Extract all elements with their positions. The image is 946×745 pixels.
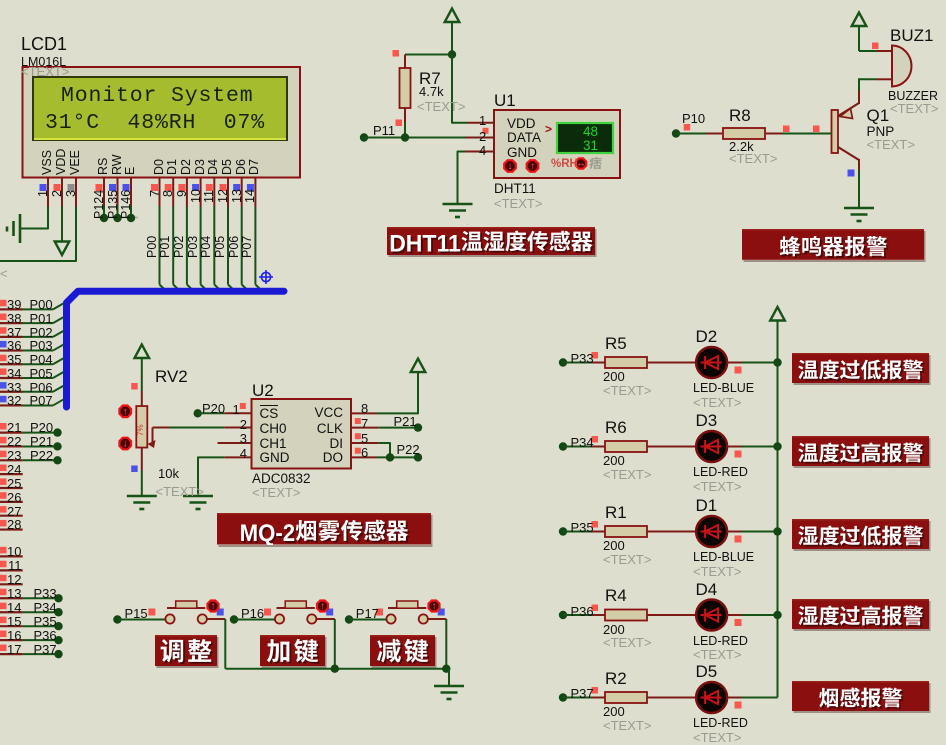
svg-text:↓: ↓	[123, 439, 128, 450]
wire D3 to rail	[727, 447, 777, 458]
banner 烟感报警	[792, 681, 929, 711]
banner P17 key	[370, 635, 435, 666]
ground DHT11	[443, 204, 473, 217]
banner 湿度过低报警	[792, 519, 929, 549]
LCD pin name labels	[41, 149, 54, 174]
svg-text:31: 31	[583, 138, 598, 153]
LCD1 labels	[21, 34, 67, 55]
ground RV2	[127, 496, 157, 509]
svg-text:MQ-2: MQ-2	[240, 520, 296, 544]
banner buzzer alarm	[742, 229, 925, 260]
wire U1 VDD pin1 to power	[452, 55, 468, 123]
U1 %RH label and button	[576, 158, 586, 169]
node P11 wire to U1 DATA pin2	[360, 128, 494, 142]
wire buzzer top pin	[859, 43, 892, 52]
banner 湿度过高报警	[792, 599, 929, 629]
LCD pin stubs	[48, 178, 255, 207]
power arrow DHT11 supply	[445, 9, 460, 55]
U1 adjust buttons	[504, 160, 538, 172]
RV2 up button	[119, 406, 131, 418]
U1 internal display	[545, 122, 613, 153]
LED D5 LED-RED	[696, 682, 727, 713]
wires LCD D0-D7 to bus	[160, 207, 263, 292]
banner MQ-2 smoke sensor	[217, 513, 431, 545]
ground LCD VSS	[7, 214, 20, 243]
banner 温度过低报警	[792, 353, 929, 383]
node P34 resistor R6 200	[559, 436, 696, 452]
U2 CLK pin7 to node P21	[351, 418, 422, 432]
node P10 and resistor R8 2.2k to Q1 base	[672, 124, 832, 139]
LED D4 LED-RED	[696, 600, 727, 631]
bus net labels P00-P07	[146, 235, 159, 257]
ground buttons	[434, 686, 464, 699]
junction R7/DATA	[401, 133, 409, 141]
svg-text:>: >	[545, 122, 552, 136]
svg-text:↑: ↑	[530, 161, 535, 172]
RV2 wiper to U2 CH0	[148, 428, 252, 449]
svg-text:↑: ↑	[320, 601, 325, 612]
svg-text:48: 48	[583, 124, 598, 139]
MCU port2 pins 21-28	[0, 423, 62, 437]
LED D3 LED-RED	[696, 431, 727, 462]
wire R7 top to power	[405, 54, 452, 56]
potentiometer RV2 10k	[131, 383, 147, 496]
U2 VCC pin8 to power arrow	[351, 359, 425, 414]
power arrow LED rail	[770, 307, 785, 363]
node P33 resistor R5 200	[559, 352, 696, 368]
U1 gray glyph	[589, 157, 601, 169]
banner P15 key	[155, 635, 217, 666]
power arrow RV2 supply	[135, 345, 150, 392]
ground U2	[183, 496, 213, 509]
LCD pin numbers	[37, 190, 50, 197]
junction rail	[773, 442, 781, 450]
U2 DI pin5 to DO	[351, 433, 390, 457]
common button wire to ground	[225, 665, 450, 686]
bus P0 (blue)	[67, 291, 285, 407]
svg-text:↓: ↓	[508, 161, 513, 172]
origin crosshair marker	[259, 270, 273, 284]
LCD screen	[33, 77, 287, 140]
wire U1 GND pin4 to ground	[458, 152, 495, 204]
power arrow down VDD	[55, 242, 70, 256]
ground buzzer	[844, 208, 874, 221]
node P36 resistor R4 200	[559, 605, 696, 621]
junction power/R7	[448, 50, 456, 58]
wire LCD VEE pin3	[0, 207, 76, 262]
LCD LM016L body LCD1	[23, 67, 301, 178]
wire D4 to rail	[727, 615, 777, 626]
power arrow buzzer supply	[852, 13, 867, 52]
resistor R7 4.7k	[393, 50, 411, 138]
push button P15	[113, 601, 225, 669]
LCD screen text	[61, 84, 254, 109]
wire D2 to rail	[727, 363, 777, 374]
banner P16 key	[260, 635, 325, 666]
push button P17	[345, 601, 447, 669]
node P20 to U2 CS pin1	[194, 403, 252, 417]
wire Q1 collector to ground	[848, 170, 860, 208]
wire D1 to rail	[727, 532, 777, 543]
svg-text:DHT11: DHT11	[389, 231, 461, 255]
wire LCD VDD pin2 to power-down arrow	[61, 207, 63, 242]
svg-text:↑: ↑	[432, 601, 437, 612]
U2 DO pin6 to node P22	[351, 448, 422, 462]
MCU port0 pins 39-32 with wires to bus	[0, 300, 64, 310]
LED D2 LED-BLUE	[696, 347, 727, 378]
buzzer BUZ1	[892, 46, 911, 87]
svg-text:↑: ↑	[211, 601, 216, 612]
U2 GND pin4 to ground	[198, 457, 252, 495]
LCD pin state squares	[40, 184, 254, 191]
push button P16	[230, 601, 335, 669]
MCU port3 pins 10-17	[0, 547, 23, 557]
RV2 down button	[119, 438, 131, 450]
node P37 resistor R2 200	[559, 687, 696, 703]
LED D1 LED-BLUE	[696, 516, 727, 547]
ADC U2 ADC0832 body	[252, 399, 352, 469]
sensor U1 DHT11 body	[494, 110, 620, 178]
wire D5 to rail	[727, 698, 777, 709]
banner 温度过高报警	[792, 436, 929, 466]
wire LCD VSS pin1 to ground	[21, 207, 48, 229]
junction rail	[773, 358, 781, 366]
junction rail	[773, 611, 781, 619]
banner DHT11 temperature-humidity sensor	[387, 227, 595, 255]
svg-text:↑: ↑	[123, 407, 128, 418]
transistor Q1 PNP	[832, 103, 860, 171]
wire buzzer bottom pin to Q1 emitter	[859, 78, 892, 104]
node P35 resistor R1 200	[559, 521, 696, 537]
wires LCD RS RW E with net labels P12 P13 P14	[97, 217, 138, 219]
junction rail	[773, 527, 781, 535]
U2 CH1 pin3 stub	[218, 442, 252, 444]
LED power rail	[777, 363, 779, 698]
